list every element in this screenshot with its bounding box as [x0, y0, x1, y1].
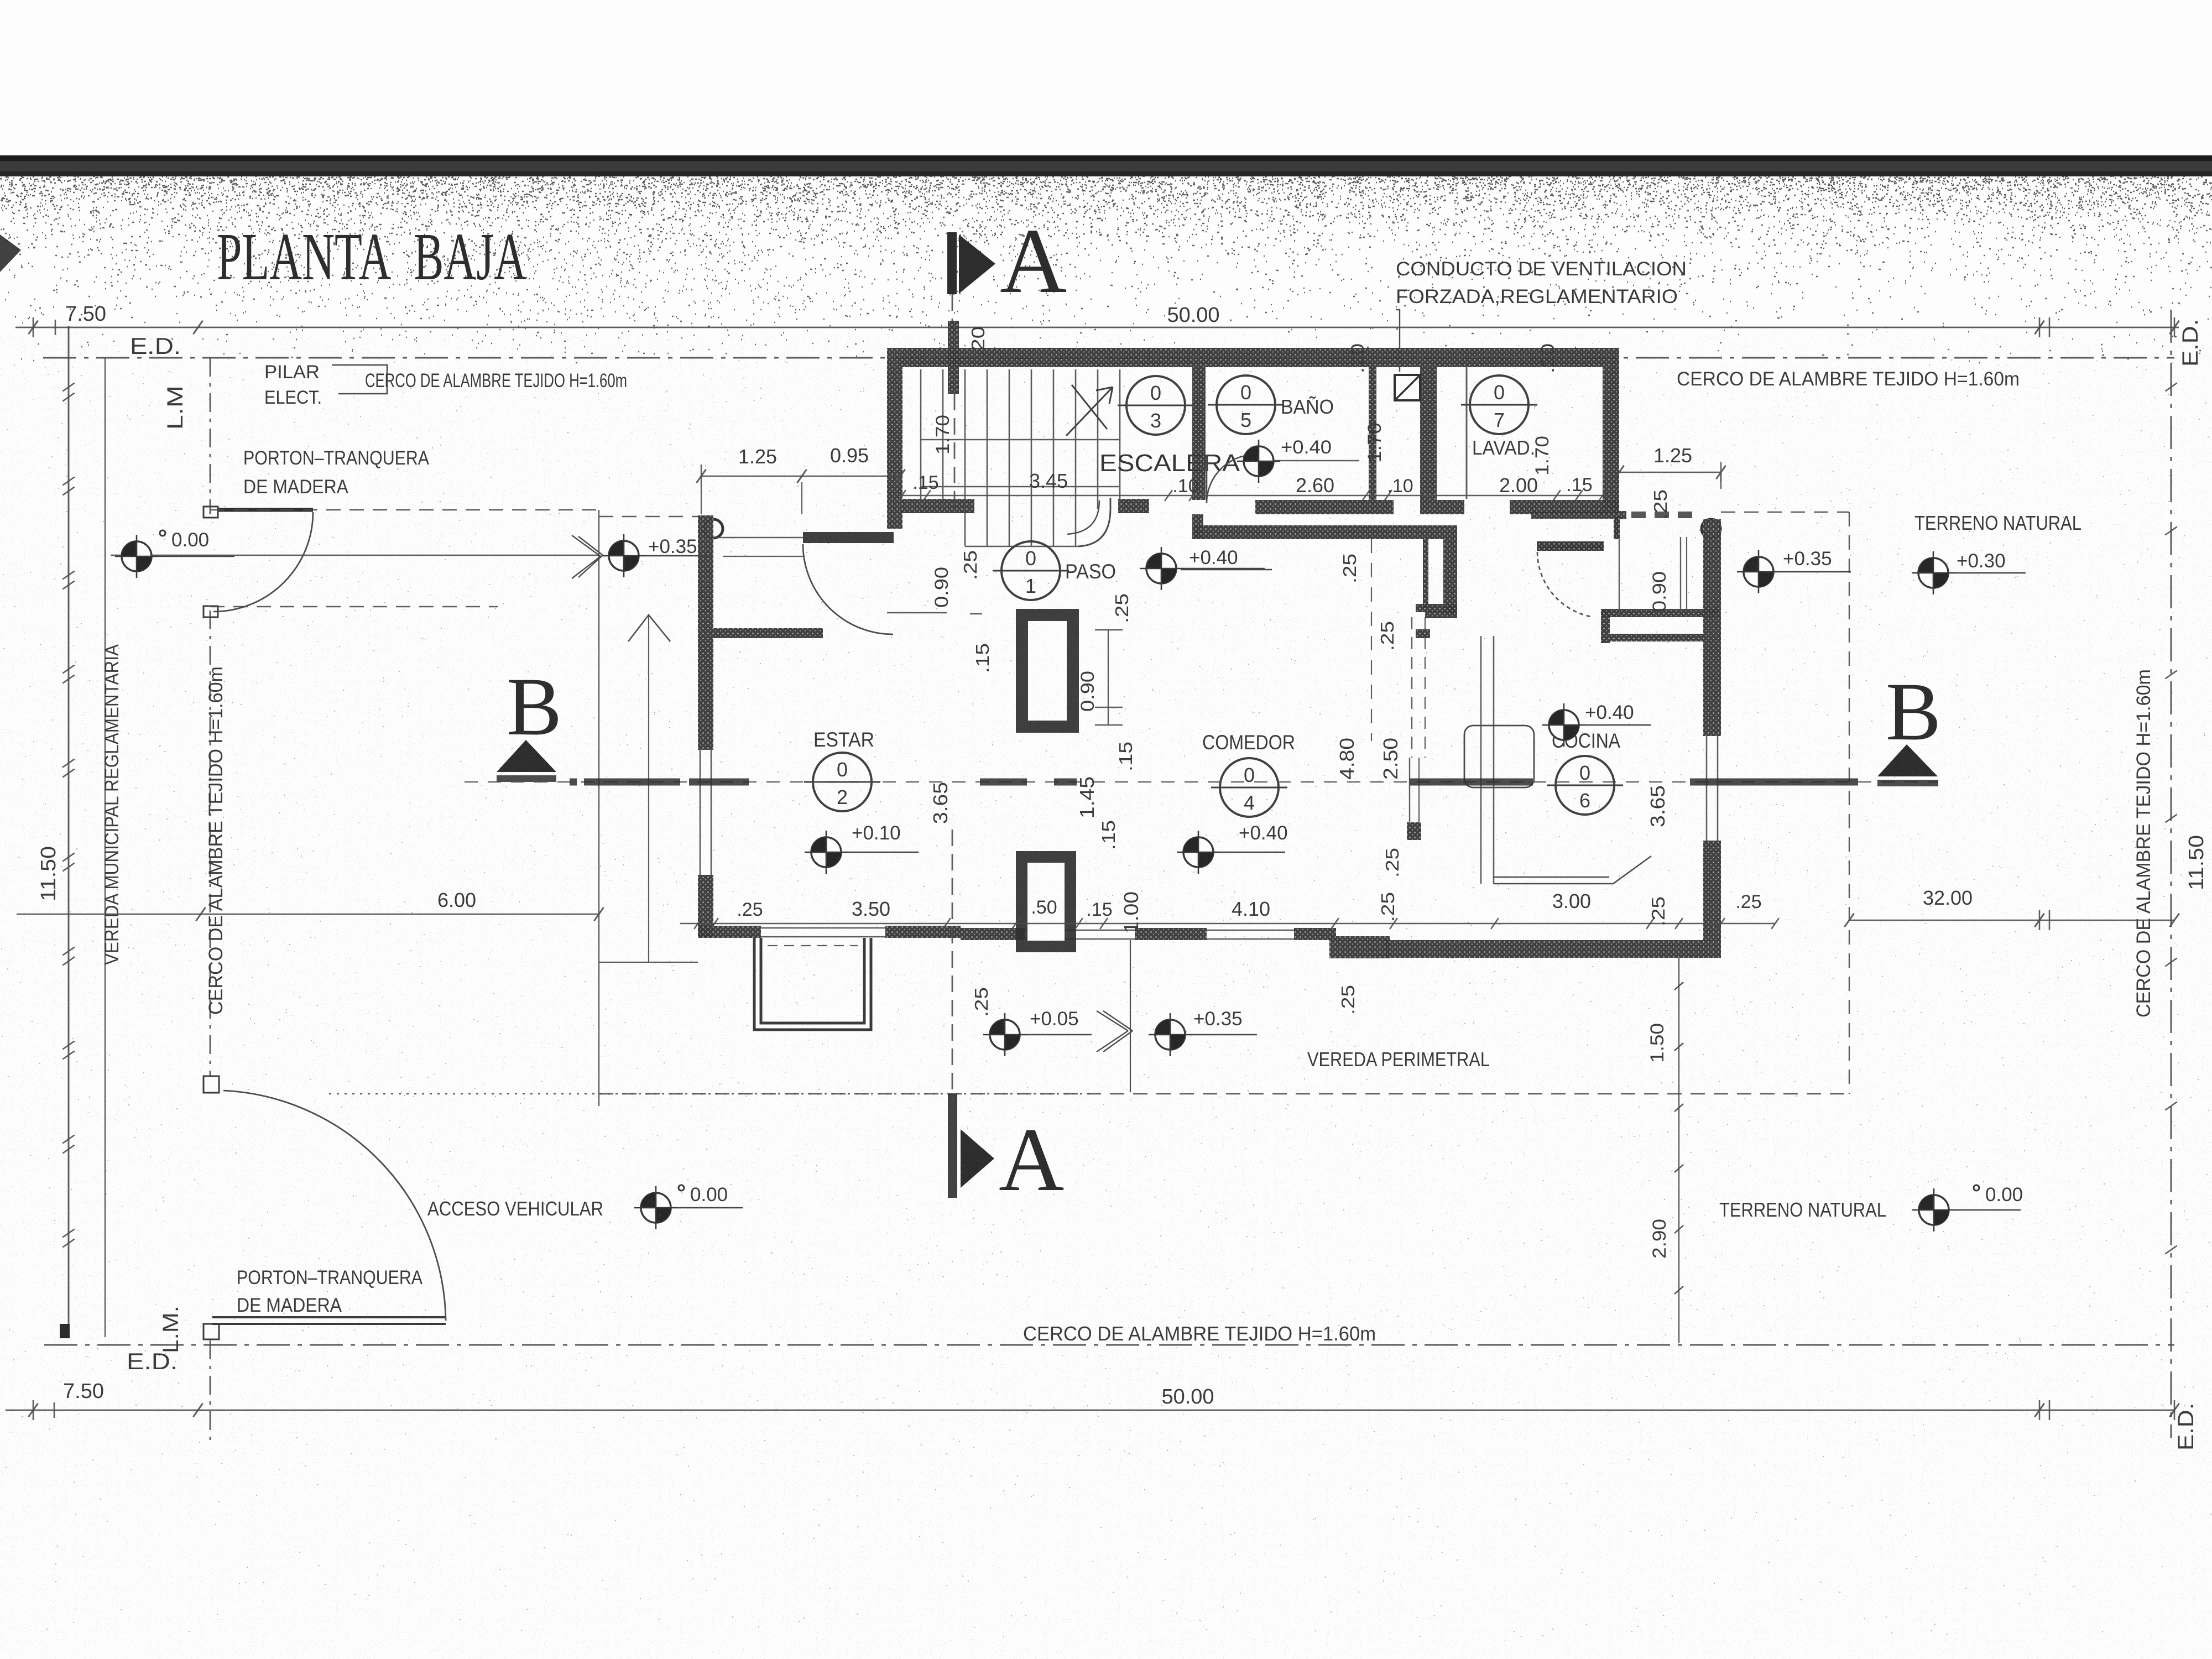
west window living [700, 750, 701, 875]
kitchen north broken wall dashes [1631, 512, 1693, 518]
vereda west edge [598, 510, 599, 1106]
pedestrian gate posts [204, 507, 218, 518]
kitchen fixture [1464, 726, 1534, 787]
line divider comedor/kitchen [1409, 758, 1410, 822]
section A line top [952, 294, 953, 327]
wall kitchen recess upper [1601, 609, 1719, 617]
vent duct square [1395, 375, 1420, 400]
kitchen door leaf [1537, 541, 1604, 551]
svg-text:FORZADA,REGLAMENTARIO: FORZADA,REGLAMENTARIO [1396, 286, 1678, 307]
wall south comedor pier 1 [961, 928, 1025, 940]
scanner dark band [0, 155, 2212, 161]
stray mark left edge (cut arrow) [0, 234, 21, 272]
section A line in stair [954, 394, 956, 514]
wall kitchen recess step [1601, 609, 1610, 643]
left inner line [105, 358, 106, 1337]
conducto leader [1396, 310, 1400, 372]
vereda south edge dotted [329, 1093, 1094, 1094]
south window comedor 1 [1025, 930, 1135, 931]
wall niche left [1423, 539, 1428, 608]
benchmark +0.40 cocina [1542, 702, 1651, 747]
benchmark 0.00 terreno south [1912, 1184, 2023, 1232]
dim 6.00 [17, 914, 599, 915]
benchmark +0.10 estar [805, 822, 919, 874]
wall laundry west thin [1466, 367, 1468, 499]
benchmark 0.00 acceso [634, 1184, 743, 1229]
exterior wall west of stair block [887, 367, 902, 529]
wall north comedor [1194, 525, 1457, 539]
dim chain closet east [1108, 630, 1109, 725]
wall south of laundry east [1510, 500, 1619, 514]
top dimension line [15, 327, 2179, 328]
vehicular gate posts [204, 1076, 219, 1093]
benchmark +0.35 vereda east [1737, 548, 1851, 593]
wall bath east [1369, 367, 1376, 500]
bottom dimension line [6, 1410, 2174, 1411]
line comedor/kitchen divider [1411, 617, 1412, 758]
scanner noise fading below band [0, 176, 2212, 363]
top fence line CERCO [43, 357, 2174, 359]
left property line [68, 326, 70, 1337]
kitchen counter south + diagonal [1494, 856, 1651, 884]
east window kitchen [1706, 736, 1708, 841]
stair rail return curve [1078, 498, 1110, 546]
exterior wall east lower [1703, 841, 1721, 940]
pilar elect. leader [332, 365, 387, 394]
svg-text:50.00: 50.00 [1167, 304, 1219, 327]
exterior wall east of top strip [1603, 367, 1619, 514]
lot east helper line [1678, 958, 1679, 1343]
svg-text:A: A [1000, 210, 1067, 312]
planter below living window [754, 938, 871, 1030]
room tag comedor 0/4 [1211, 758, 1287, 817]
room tag cocina 0/6 [1547, 756, 1623, 815]
kitchen door jamb [1614, 516, 1620, 539]
wall niche bottom [1416, 629, 1430, 638]
vehicular gate leaf [212, 1316, 446, 1318]
benchmark +0.30 terreno [1912, 550, 2026, 594]
room tag escalera 0/3 [1118, 376, 1194, 435]
wall south of laundry west [1420, 500, 1464, 514]
vereda north edge west part [599, 516, 698, 517]
section A pillar through wall [948, 321, 959, 394]
right property line [2171, 310, 2172, 1438]
benchmark +0.40 comedor entry [1140, 547, 1265, 590]
vehicular gate swing arc [223, 1091, 446, 1321]
wall stub at stair exit [1118, 499, 1149, 513]
svg-text:7.50: 7.50 [65, 302, 106, 326]
wall comedor/kitchen NE corner [1443, 539, 1457, 614]
faint scan speckle overall [0, 332, 2212, 1659]
dim 1.25 right [1619, 472, 1721, 473]
section A line bottom [952, 830, 953, 1094]
vereda edge dashed left [210, 606, 498, 607]
section A bottom marker [961, 1129, 994, 1188]
line comedor east dashed [1371, 539, 1372, 741]
staircase treads [921, 369, 1120, 546]
wall south comedor pier 3 [1294, 928, 1336, 940]
room tag bano 0/5 [1208, 375, 1284, 434]
ramp cross south [1097, 1011, 1133, 1052]
wall south of bath [1255, 500, 1394, 514]
exterior wall west (living) [698, 515, 713, 750]
wall south kitchen [1385, 940, 1721, 958]
south window living [761, 927, 885, 929]
benchmark +0.35 entry [602, 534, 711, 577]
section B line [465, 781, 1938, 782]
bath door swing [1207, 455, 1255, 503]
wall step comedor NE [1425, 611, 1457, 618]
room tag lavadero 0/7 [1461, 375, 1537, 434]
pedestrian gate leaf [218, 508, 313, 512]
main lower dimension line [680, 923, 1775, 925]
wall south living west pier [698, 926, 761, 938]
benchmark +0.05 vereda south [983, 1008, 1092, 1056]
room tag paso 0/1 [993, 541, 1069, 600]
wall north kitchen stub [1620, 511, 1626, 519]
wall jog south [1329, 936, 1390, 958]
access path arrow [648, 614, 649, 962]
terminal square left property [60, 1324, 70, 1338]
closet lower (living/comedor) [1016, 851, 1076, 952]
dim 32.00 [1849, 920, 2174, 921]
wall kitchen recess lower [1610, 634, 1704, 641]
wall south living east pier [885, 926, 961, 938]
benchmark +0.40 comedor [1177, 822, 1288, 874]
vereda top edge from gate [210, 509, 601, 510]
wall stair/bath divider [1192, 367, 1206, 500]
porch wall line [713, 537, 803, 539]
wall stub comedor/kitchen [1407, 822, 1421, 840]
benchmark +0.35 vereda south [1149, 1008, 1257, 1056]
front door leaf [803, 532, 894, 543]
benchmark 0.00 street [115, 529, 234, 578]
kitchen door swing [1537, 552, 1591, 617]
exterior wall north (top strip) [887, 348, 1619, 367]
ramp cross west [572, 535, 603, 578]
deck south edge [599, 962, 698, 963]
L.M municipal line [210, 358, 211, 514]
vereda east edge [1849, 512, 1850, 1094]
vereda south edge [599, 1093, 1849, 1094]
wall south of stair west part [902, 499, 974, 513]
wall bath/laundry divider [1420, 367, 1437, 500]
kitchen counter west [1480, 636, 1482, 884]
vereda pillar circle east [1702, 519, 1720, 538]
exterior wall west lower [698, 875, 713, 937]
vereda north edge east part [1721, 512, 1849, 513]
vereda pillar circle west [704, 519, 723, 538]
dim line 1.25/0.95 [701, 476, 900, 477]
dim line stair strip [902, 495, 1603, 496]
room tag estar 0/2 [804, 753, 880, 811]
pedestrian gate swing arc [213, 512, 313, 612]
stair up arrow [1066, 385, 1113, 436]
wall north kitchen solid [1531, 511, 1620, 519]
wall south comedor pier 2 [1135, 928, 1207, 940]
closet upper (paso/comedor) [1016, 609, 1079, 733]
south window comedor 2 [1207, 930, 1294, 931]
benchmark bano [1237, 440, 1280, 483]
svg-text:PLANTA BAJA: PLANTA BAJA [217, 220, 526, 294]
wall north living [713, 628, 823, 638]
bottom fence line CERCO [44, 1344, 2174, 1346]
kitchen window jamb lines [1680, 537, 1681, 611]
svg-text:CONDUCTO DE VENTILACION: CONDUCTO DE VENTILACION [1396, 258, 1687, 280]
wall niche top [1416, 604, 1457, 612]
wall stub right of bath door [1192, 514, 1203, 539]
exterior wall east upper [1703, 519, 1721, 736]
front door swing [803, 544, 893, 634]
section A top marker [947, 232, 957, 294]
path line to house [111, 555, 599, 556]
